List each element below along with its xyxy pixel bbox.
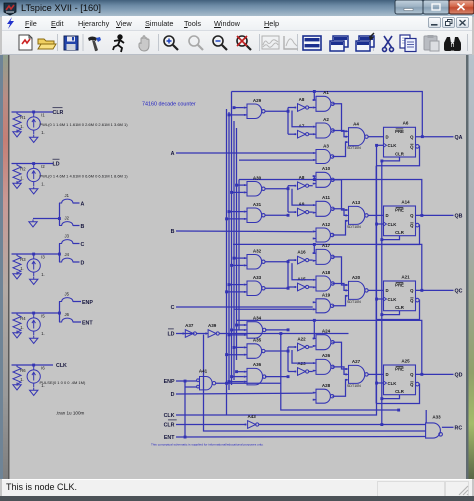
wire to A11 upper input <box>292 189 313 205</box>
nand gate A26 <box>313 359 335 374</box>
svg-text:A: A <box>81 201 85 207</box>
svg-text:A4: A4 <box>353 122 359 127</box>
svg-text:CLK: CLK <box>388 222 398 227</box>
wire A13 to D of A14 <box>368 214 383 216</box>
ground under R1 <box>13 130 21 137</box>
flip-flop A25 <box>384 365 420 395</box>
resistor R1 <box>13 112 21 133</box>
svg-text:1.: 1. <box>20 124 24 129</box>
svg-text:B: B <box>81 224 85 230</box>
wire stub to A22 <box>288 346 295 348</box>
svg-text:CLR: CLR <box>395 151 405 156</box>
wire bundle to A29 input <box>234 107 244 109</box>
wire A7 out to A2 <box>309 133 313 135</box>
junction A32 out <box>287 260 290 263</box>
wire A4 to D of A6 <box>368 136 383 138</box>
svg-text:R3: R3 <box>20 257 26 262</box>
wire A34 output <box>265 329 288 331</box>
wire to A26 upper input <box>292 350 313 363</box>
svg-text:LD: LD <box>53 162 60 168</box>
svg-text:A32: A32 <box>253 248 262 253</box>
svg-text:CLK: CLK <box>164 413 175 419</box>
svg-text:A37: A37 <box>185 323 194 328</box>
nand gate A20 (3-input) <box>345 281 368 299</box>
wire A25 region to RC top input <box>425 410 427 423</box>
svg-text:This conceptual schematic is s: This conceptual schematic is supplied fo… <box>151 442 264 446</box>
wire net ENT to RC gate <box>176 436 426 439</box>
junction at I1 top <box>32 111 35 114</box>
current source I3 <box>27 254 40 277</box>
svg-text:1.: 1. <box>20 176 24 181</box>
wire stub to A8 <box>288 185 295 187</box>
inverter A8 <box>295 182 309 190</box>
svg-text:QB: QB <box>455 214 463 220</box>
wire A24 out to A27 <box>332 342 346 369</box>
wire bundle to A35 input <box>227 354 244 356</box>
wire Qbar hook A14 <box>376 225 419 244</box>
svg-text:PRE: PRE <box>395 367 404 372</box>
svg-text:A15: A15 <box>297 277 306 282</box>
wire to A18 upper input <box>292 263 313 280</box>
junction A34 out <box>287 328 290 331</box>
wire A23 out to A26 <box>309 371 313 373</box>
wire I5 to J5/J6 <box>53 312 60 314</box>
svg-text:ENT: ENT <box>164 435 175 441</box>
wire CLR hook A14 <box>382 236 400 240</box>
wire stub to A9 <box>288 211 295 213</box>
wire net CLR to A43 <box>176 424 247 426</box>
svg-text:1.: 1. <box>41 182 45 187</box>
wire net from R2/I2 <box>12 163 54 165</box>
wire A9 out to A11 <box>309 211 313 213</box>
svg-text:D: D <box>171 392 175 398</box>
nand gate A10 <box>313 172 335 187</box>
window buttons (min/max/close) <box>394 0 474 17</box>
svg-text:PWL(0 1 4.6M 1 4.61M 0 6.6M 0: PWL(0 1 4.6M 1 4.61M 0 6.6M 0 6.61M 1 8.… <box>40 174 129 179</box>
wire A3 out to A4 <box>332 142 346 156</box>
nand gate A13 (3-input) <box>345 206 368 224</box>
svg-text:CLK: CLK <box>388 297 398 302</box>
junction bundle/A34 <box>228 333 231 336</box>
wire A11 out to A13 <box>332 209 346 216</box>
junction bundle/A35 <box>225 353 228 356</box>
junction A36 out <box>287 375 290 378</box>
toolbar icon: zoom full (grayed) <box>189 36 203 50</box>
nand gate A34 (left column) <box>244 322 266 339</box>
junction bundle/A33 <box>225 290 228 293</box>
svg-text:A17: A17 <box>322 243 331 248</box>
toolbar icon: cascade windows <box>330 36 348 51</box>
ground under R2 <box>13 181 21 188</box>
junction at (398.7,410) <box>397 409 400 412</box>
inverter A9 <box>295 208 309 216</box>
svg-text:A9: A9 <box>299 202 305 207</box>
and gate A33 (RC output) <box>426 423 443 438</box>
jumper J5 <box>59 298 76 302</box>
junction feedback/A1 <box>313 90 316 93</box>
wire Qbar hook A25 <box>376 384 419 403</box>
svg-text:CLR: CLR <box>53 110 64 116</box>
junction CLK A25 <box>375 382 378 385</box>
toolbar icon: open file <box>38 39 56 49</box>
junction bundle/A36 <box>230 375 233 378</box>
wire J5 to ENP <box>73 301 81 303</box>
junction J5/J6 feed <box>58 312 61 315</box>
wire feedback bundle x=239.0 <box>238 180 240 331</box>
svg-text:A19: A19 <box>322 293 331 298</box>
wire Qbar hook A6 <box>376 146 419 165</box>
wire feed inverters row2 <box>287 186 289 212</box>
svg-text:A20: A20 <box>352 275 361 280</box>
wire A10 out to A13 <box>332 180 346 210</box>
svg-text:A29: A29 <box>253 98 262 103</box>
inverter A39 <box>205 330 219 338</box>
wire feed inverters row4 <box>287 347 289 372</box>
junction bundle/A29 <box>228 113 231 116</box>
toolbar icon: save <box>64 36 78 50</box>
nand gate A28 <box>313 389 334 403</box>
ground under I2 <box>30 187 38 194</box>
ground under I3 <box>30 277 38 284</box>
wire A8 out to A1 <box>309 107 313 109</box>
wire J4 to D <box>73 261 80 263</box>
nand gate A1 <box>313 96 335 111</box>
svg-text:A8: A8 <box>299 175 305 180</box>
nand gate A3 <box>313 150 334 164</box>
svg-text:A30: A30 <box>253 175 262 180</box>
svg-text:SDT10N: SDT10N <box>347 384 361 388</box>
wire bundle to A33 input <box>229 284 244 286</box>
resistor R6 <box>13 365 21 386</box>
wire bundle to A34 input <box>237 324 244 326</box>
svg-text:PRE: PRE <box>395 129 404 134</box>
junction bundle/A30 <box>235 184 238 187</box>
toolbar icon: waveform (grayed) <box>262 36 279 49</box>
wire Qbar hook A21 <box>376 300 419 319</box>
toolbar icon: paste (grayed) <box>424 35 439 51</box>
svg-text:A21: A21 <box>401 274 410 279</box>
toolbar icon: cut <box>383 36 394 52</box>
junction bundle/A36 <box>228 380 231 383</box>
svg-text:A43: A43 <box>247 414 256 419</box>
wire feedback bundle x=231.5 <box>231 92 233 386</box>
ground under I6 <box>30 388 38 395</box>
junction J3/J4 feed <box>58 253 61 256</box>
wire QA feedback top <box>232 92 423 137</box>
resistor R4 <box>13 313 21 334</box>
wire A27 to D of A25 <box>368 373 383 375</box>
svg-text:PWL(0 1 1.6M 1 1.61M 0 2.6M 0: PWL(0 1 1.6M 1 1.61M 0 2.6M 0 2.61M 1 3.… <box>40 122 129 127</box>
svg-text:A22: A22 <box>297 337 306 342</box>
nand gate A36 (left column) <box>244 368 266 385</box>
wire A31 output <box>265 214 288 216</box>
ground under R4 <box>13 331 21 338</box>
wire ground to J1/J2 <box>33 218 60 220</box>
svg-text:C: C <box>81 242 85 248</box>
svg-text:A34: A34 <box>253 316 262 321</box>
junction ENP vertical top <box>184 380 187 383</box>
jumper J1 <box>59 199 76 203</box>
wire Qbar vertical x=376.2 <box>375 166 377 404</box>
junction bundle/A32 <box>233 257 236 260</box>
wire stub to A8 <box>288 107 295 109</box>
ground under R3 <box>13 272 21 279</box>
svg-text:B: B <box>171 229 175 235</box>
svg-text:R1: R1 <box>20 115 26 120</box>
nand gate A31 (left column) <box>244 208 265 223</box>
toolbar icon: hammer (edit schematic) <box>88 37 101 52</box>
junction A35 out <box>287 350 290 353</box>
svg-text:A18: A18 <box>322 270 331 275</box>
toolbar icon: zoom out <box>213 36 227 50</box>
wire J6 to ENT <box>73 321 81 323</box>
svg-text:J5: J5 <box>65 292 70 297</box>
svg-text:A24: A24 <box>322 329 331 334</box>
toolbar icon: tile windows <box>303 36 321 50</box>
wire A22 out to A24 <box>309 346 313 348</box>
wire to A17 upper input <box>313 244 315 253</box>
junction CLK A14 <box>375 223 378 226</box>
wire net A to gates <box>176 152 313 154</box>
svg-text:A10: A10 <box>322 166 331 171</box>
wire to A10 upper input <box>313 176 315 179</box>
junction J1/J2 feed <box>58 217 61 220</box>
current source I2 <box>27 164 40 187</box>
app icon <box>3 2 17 16</box>
wire Q of A14 to QB <box>416 214 454 216</box>
wire A17 out to A20 <box>332 257 346 285</box>
inverter A7 <box>295 130 309 138</box>
svg-text:SDT10N: SDT10N <box>347 225 361 229</box>
wire A26 out to A27 <box>332 367 346 375</box>
junction CLR A14 <box>380 238 383 241</box>
svg-text:CLK: CLK <box>388 381 398 386</box>
jumper J2 <box>59 222 76 226</box>
svg-text:A13: A13 <box>352 200 361 205</box>
svg-text:A28: A28 <box>322 383 331 388</box>
wire feedback bundle x=229.0 <box>228 112 230 390</box>
wire ENP vertical <box>184 381 186 437</box>
wire Q of A6 to QA <box>416 136 454 138</box>
wire bundle to A32 input <box>232 264 244 266</box>
svg-text:SDT10N: SDT10N <box>347 300 361 304</box>
svg-text:A3: A3 <box>323 143 329 148</box>
resistor R2 <box>13 164 21 185</box>
toolbar icon: new schematic <box>19 35 32 50</box>
toolbar icon: halt (grayed) <box>139 36 149 51</box>
svg-text:ENP: ENP <box>164 379 175 385</box>
wire A30 output <box>265 188 288 190</box>
junction ENP vertical bottom <box>184 436 187 439</box>
junction QC feedback <box>420 289 423 292</box>
svg-text:1.: 1. <box>41 272 45 277</box>
junction at I2 top <box>32 162 35 165</box>
wire A16 out to A17 <box>309 259 313 261</box>
wire CLR vertical <box>381 161 383 425</box>
svg-text:A25: A25 <box>401 358 410 363</box>
nand gate A33 (left column) <box>244 281 265 296</box>
nand gate A19 <box>313 299 334 313</box>
inverter A23 <box>295 368 309 376</box>
wire CLR hook A25 <box>382 395 400 399</box>
current source I6 <box>27 365 40 388</box>
svg-text:PRE: PRE <box>395 283 404 288</box>
junction A30 out <box>287 187 290 190</box>
jumper J6 <box>59 318 76 322</box>
svg-text:74160 decade counter: 74160 decade counter <box>142 102 196 108</box>
MDI child buttons <box>428 17 472 29</box>
svg-text:R2: R2 <box>20 167 26 172</box>
junction bundle/A29 <box>233 106 236 109</box>
wire A41 output <box>216 382 281 384</box>
wire A2 out to A4 <box>332 131 346 137</box>
wire LD branch down (x=203.5) <box>204 335 426 432</box>
flip-flop A14 <box>384 206 420 236</box>
svg-text:C: C <box>171 305 175 311</box>
wire bundle to A30 input <box>237 184 244 186</box>
junction bundle/A33 <box>228 283 231 286</box>
svg-text:A2: A2 <box>323 117 329 122</box>
wire A37 to A39 <box>197 333 209 335</box>
wire bundle to A34 input <box>229 334 244 336</box>
inverter A15 <box>295 283 309 291</box>
svg-text:CLR: CLR <box>395 230 405 235</box>
svg-text:A27: A27 <box>352 359 361 364</box>
wire bundle to A31 input <box>227 218 244 220</box>
wire A32 output <box>265 261 288 263</box>
wire J3 to C <box>73 243 80 245</box>
junction feedback/A17 <box>313 243 316 246</box>
wire A28 out to A27 <box>332 380 346 396</box>
current source I1 <box>27 112 40 135</box>
wire A8 out to A10 <box>309 185 313 187</box>
svg-text:J3: J3 <box>65 234 70 239</box>
svg-text:1.: 1. <box>20 377 24 382</box>
svg-text:1.: 1. <box>41 130 45 135</box>
svg-text:LD: LD <box>167 332 174 338</box>
svg-text:RC: RC <box>455 425 463 431</box>
nand gate A4 (3-input) <box>345 128 368 146</box>
wire A33 to RC <box>442 426 454 428</box>
wire Q of A25 to QD <box>416 373 454 375</box>
svg-text:J1: J1 <box>65 193 70 198</box>
nand gate A11 <box>313 201 335 216</box>
junction at I3 top <box>32 253 35 256</box>
junction bundle/A32 <box>230 264 233 267</box>
wire bundle to A29 input <box>229 114 244 116</box>
junction bundle/A31 <box>225 217 228 220</box>
wire bundle to A34 input <box>232 329 244 331</box>
junction A41 out at bundle <box>225 382 228 385</box>
wire bundle to A32 input <box>234 257 244 259</box>
svg-text:1.: 1. <box>20 266 24 271</box>
svg-text:PRE: PRE <box>395 208 404 213</box>
wire to A41 lower input <box>185 386 197 388</box>
toolbar icon: run <box>113 35 124 52</box>
svg-text:R4: R4 <box>20 316 26 321</box>
svg-text:A31: A31 <box>253 202 262 207</box>
svg-text:A16: A16 <box>297 250 306 255</box>
wire vertical J3/J4 <box>59 244 61 263</box>
window title bar <box>0 0 474 17</box>
wire to A3 lower input <box>239 159 313 161</box>
svg-text:A8: A8 <box>299 97 305 102</box>
wire feedback bundle x=234.0 <box>233 121 235 380</box>
toolbar icon: cascade2 windows <box>356 33 374 51</box>
wire feedback bundle x=236.5 <box>236 128 238 360</box>
svg-text:1.: 1. <box>41 331 45 336</box>
svg-text:A: A <box>171 151 175 157</box>
svg-text:QC: QC <box>455 289 463 295</box>
wire to A24 upper input <box>313 320 315 338</box>
wire CLK stub A14 <box>377 223 384 225</box>
inverter A8 <box>295 104 309 112</box>
toolbar <box>2 31 472 55</box>
junction CLK A6 <box>375 144 378 147</box>
svg-text:R6: R6 <box>20 368 26 373</box>
junction bundle/A30 <box>230 191 233 194</box>
inverter A37 <box>182 330 196 338</box>
wire stub to A16 <box>288 259 295 261</box>
wire LD vertical 280.8 <box>281 334 399 411</box>
junction at I5 top <box>32 312 35 315</box>
nand gate A32 (left column) <box>244 255 265 270</box>
svg-text:A26: A26 <box>322 353 331 358</box>
svg-text:CLR: CLR <box>395 389 405 394</box>
toolbar icon: copy <box>400 35 416 52</box>
wire A1 out to A4 <box>332 104 346 132</box>
wire A39 out <box>219 333 348 335</box>
wire LD to A37 <box>176 333 195 335</box>
nand gate A24 <box>313 335 335 350</box>
wire bundle to A31 input <box>229 211 244 213</box>
junction bundle/A36 <box>235 370 238 373</box>
wire net B to gates <box>176 230 313 233</box>
wire bundle to A33 input <box>227 291 244 293</box>
wire net from R6/I6 <box>12 364 54 366</box>
wire bundle to A36 input <box>232 376 244 378</box>
svg-text:ENT: ENT <box>82 320 93 326</box>
wire ENP to A41 <box>176 380 197 382</box>
wire A12 out to A13 <box>332 221 346 235</box>
svg-text:J6: J6 <box>65 312 70 317</box>
junction feedback/A24 <box>313 319 316 322</box>
junction bundle/A34 <box>230 329 233 332</box>
wire J1 to A <box>73 202 80 204</box>
svg-text:QD: QD <box>455 373 463 379</box>
wire feedback bundle x=226.5 <box>226 109 228 415</box>
svg-text:A39: A39 <box>208 323 217 328</box>
junction CLR vertical <box>380 423 383 426</box>
wire net C to gates <box>176 306 313 308</box>
svg-text:D: D <box>386 288 389 293</box>
junction at I6 top <box>32 364 35 367</box>
junction QD feedback <box>420 373 423 376</box>
svg-text:A33: A33 <box>432 415 441 420</box>
wire to A2 upper input <box>292 111 313 127</box>
jumper J3 <box>59 240 76 244</box>
wire net from R4/I5 <box>12 312 54 314</box>
wire vertical J5/J6 <box>59 302 61 323</box>
wire net CLK bottom <box>176 145 377 415</box>
junction QA feedback <box>421 135 424 138</box>
toolbar icon: fft (grayed) <box>284 36 298 49</box>
wire bundle to A30 input <box>232 191 244 193</box>
inverter A43 <box>245 421 259 429</box>
menu bar <box>2 16 472 31</box>
wire Q of A21 to QC <box>416 289 454 291</box>
wire net D to A28 <box>176 392 313 395</box>
